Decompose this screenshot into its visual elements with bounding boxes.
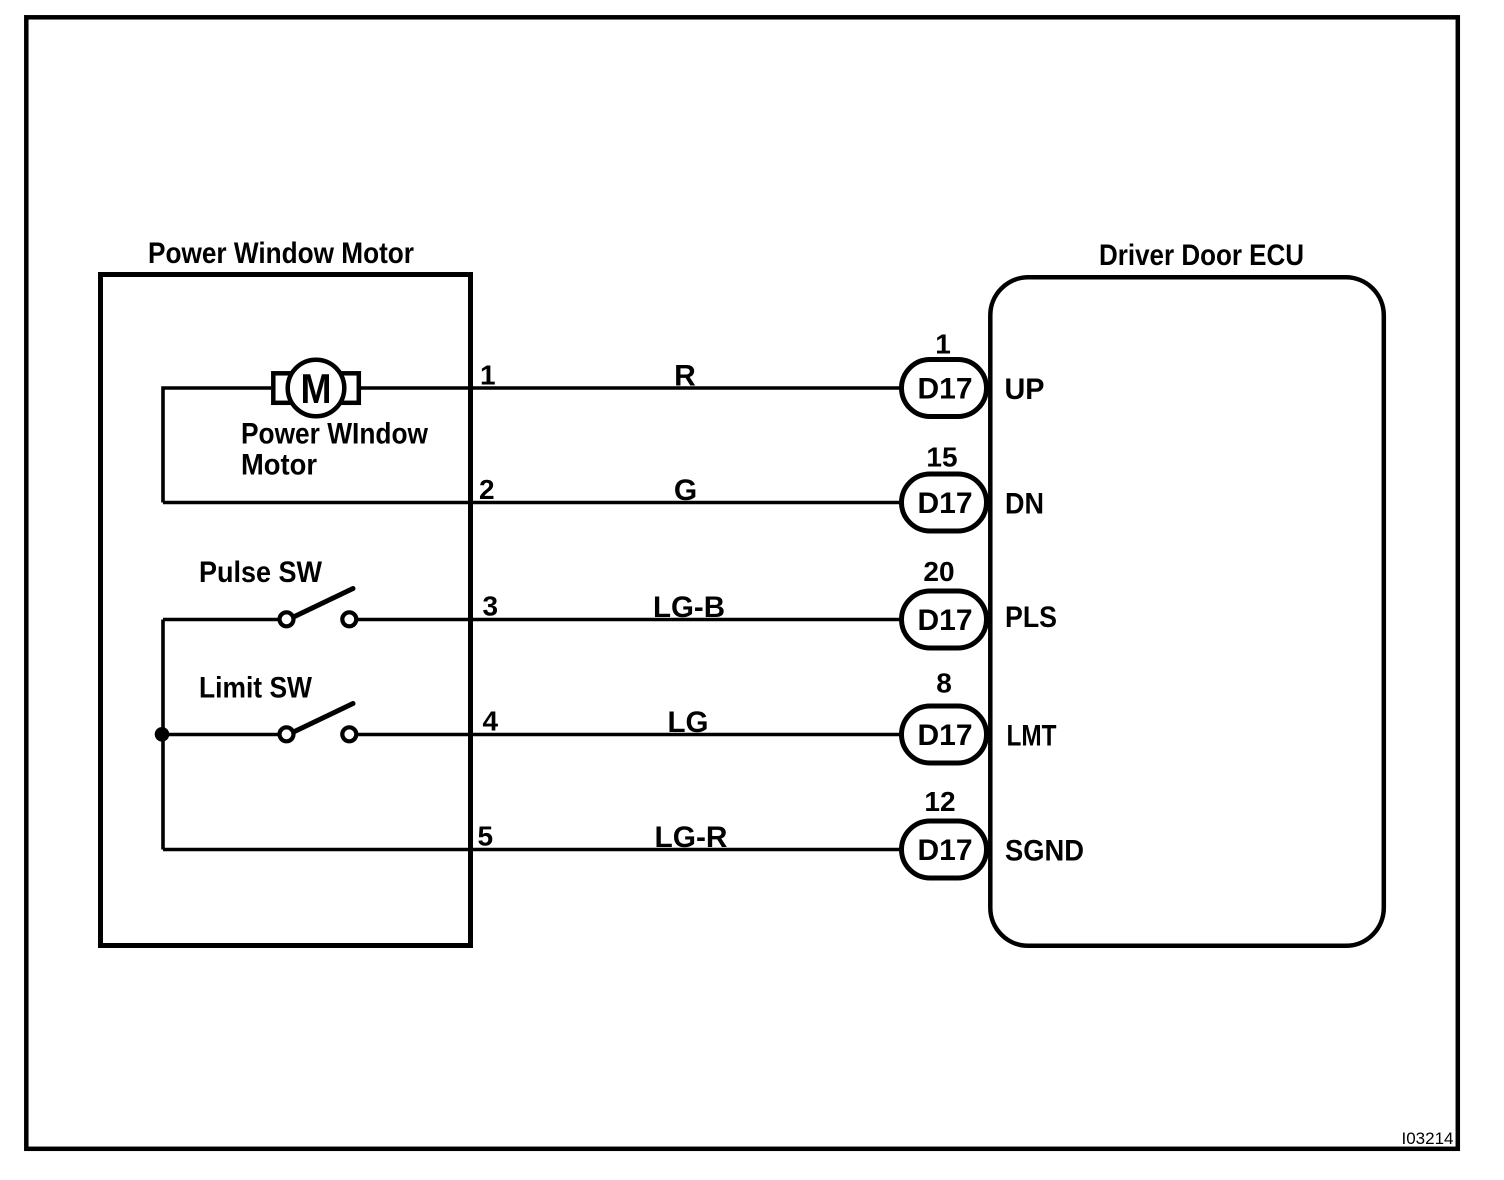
svg-text:20: 20	[923, 556, 954, 587]
connector D17 pin 1 (UP)	[902, 360, 987, 417]
wire 3 (LG-B) left segment	[163, 618, 281, 622]
svg-text:M: M	[301, 365, 332, 412]
wire 2 (G)	[163, 501, 903, 505]
component box: Driver Door ECU	[990, 277, 1384, 946]
svg-text:Power WIndow: Power WIndow	[241, 418, 429, 451]
switch: Limit SW blade	[295, 704, 354, 732]
svg-text:8: 8	[936, 668, 952, 699]
svg-text:SGND: SGND	[1005, 835, 1084, 868]
switch: Pulse SW left contact	[280, 612, 294, 626]
svg-text:G: G	[674, 474, 697, 507]
svg-text:LMT: LMT	[1007, 720, 1057, 753]
svg-text:D17: D17	[917, 834, 972, 867]
svg-text:R: R	[674, 360, 696, 393]
svg-text:DN: DN	[1005, 488, 1044, 521]
switch: Limit SW left contact	[280, 727, 294, 741]
svg-text:LG-B: LG-B	[653, 591, 725, 624]
svg-text:LG-R: LG-R	[655, 821, 728, 854]
wire: motor loop left (pin1 to pin2)	[163, 388, 271, 503]
switch: Pulse SW blade	[295, 589, 354, 617]
switch: Limit SW right contact	[342, 727, 356, 741]
svg-text:UP: UP	[1005, 373, 1045, 406]
junction node (Limit SW / SGND bus)	[155, 727, 170, 742]
svg-text:D17: D17	[917, 604, 972, 637]
connector D17 pin 15 (DN)	[902, 474, 987, 531]
svg-text:5: 5	[478, 821, 494, 852]
svg-text:4: 4	[483, 706, 499, 737]
svg-text:15: 15	[926, 442, 957, 473]
connector D17 pin 8 (LMT)	[902, 706, 987, 763]
connector D17 pin 20 (PLS)	[902, 591, 987, 648]
switch: Pulse SW right contact	[342, 612, 356, 626]
svg-text:3: 3	[483, 591, 499, 622]
svg-text:Pulse SW: Pulse SW	[199, 556, 323, 589]
component box: Power Window Motor	[101, 275, 471, 946]
svg-text:LG: LG	[668, 706, 709, 739]
svg-text:I03214: I03214	[1402, 1129, 1454, 1148]
svg-text:D17: D17	[917, 487, 972, 520]
svg-text:D17: D17	[917, 373, 972, 406]
motor M: brush terminals	[273, 373, 359, 403]
svg-text:D17: D17	[917, 719, 972, 752]
svg-text:PLS: PLS	[1005, 601, 1057, 634]
wire 5 (LG-R)	[163, 848, 903, 852]
wire 3 (LG-B) right segment	[357, 618, 903, 622]
svg-text:Limit SW: Limit SW	[199, 672, 313, 705]
svg-text:Motor: Motor	[241, 449, 317, 482]
motor M: body circle	[288, 360, 345, 417]
wire: vertical bus from Pulse SW to wire 5	[161, 620, 165, 850]
wire 4 (LG) left segment	[163, 733, 281, 737]
wire 4 (LG) right segment	[357, 733, 903, 737]
connector D17 pin 12 (SGND)	[902, 821, 987, 878]
svg-text:2: 2	[479, 474, 495, 505]
svg-text:1: 1	[935, 329, 951, 360]
svg-text:Driver Door ECU: Driver Door ECU	[1099, 239, 1304, 272]
svg-text:12: 12	[924, 786, 955, 817]
wire 1 (R)	[361, 386, 903, 390]
svg-text:Power Window Motor: Power Window Motor	[148, 237, 414, 270]
svg-text:1: 1	[480, 360, 496, 391]
